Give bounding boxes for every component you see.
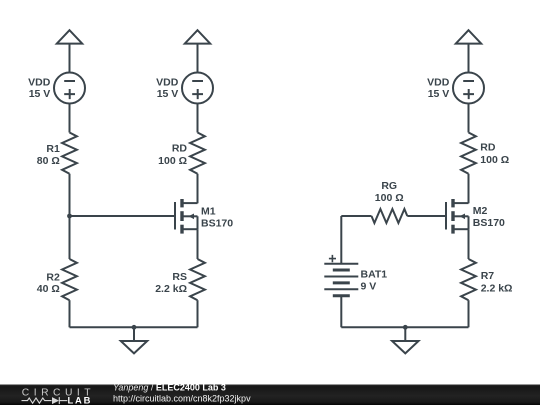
wire (69, 216, 71, 259)
node junction dot (right ground tap) (403, 325, 408, 330)
voltage source V3 circle (453, 73, 484, 104)
voltage source V1 minus sign (64, 80, 75, 82)
voltage source V3 plus sign (463, 89, 474, 99)
svg-text:2.2 kΩ: 2.2 kΩ (481, 282, 513, 294)
wire (197, 174, 199, 204)
resistor R7 (461, 259, 476, 300)
resistor R1 (62, 133, 77, 174)
power flag VDD (right circuit) (456, 30, 481, 43)
wire (341, 215, 371, 217)
node junction dot (67, 214, 72, 219)
wire (bottom rail left) (70, 326, 198, 328)
svg-text:M2: M2 (473, 205, 488, 217)
svg-text:15 V: 15 V (157, 88, 179, 100)
svg-text:VDD: VDD (427, 77, 450, 89)
transistor M1 (175, 199, 198, 234)
wire (407, 215, 446, 217)
svg-text:VDD: VDD (156, 77, 179, 89)
svg-text:RG: RG (381, 180, 397, 192)
battery BAT1 plus sign (329, 255, 336, 262)
wire (340, 296, 342, 328)
svg-text:100 Ω: 100 Ω (158, 155, 187, 167)
svg-text:R7: R7 (481, 270, 495, 282)
svg-text:40 Ω: 40 Ω (37, 283, 60, 295)
svg-text:100 Ω: 100 Ω (375, 192, 404, 204)
wire (468, 44, 470, 73)
svg-text:RS: RS (172, 271, 187, 283)
voltage source V2 circle (182, 73, 213, 104)
svg-text:BS170: BS170 (473, 217, 505, 229)
wire (468, 104, 470, 133)
svg-text:100 Ω: 100 Ω (480, 154, 509, 166)
wire (69, 44, 71, 73)
power flag VDD (branch 1) (57, 30, 82, 43)
voltage source V2 minus sign (192, 80, 203, 82)
wire (69, 174, 71, 216)
wire (gate lead to M1) (70, 215, 176, 217)
voltage source V3 minus sign (463, 80, 474, 82)
wire (197, 104, 199, 133)
battery BAT1 plates (324, 264, 358, 296)
svg-text:80 Ω: 80 Ω (37, 155, 60, 167)
svg-text:R1: R1 (46, 143, 60, 155)
ground (right) (392, 327, 418, 353)
wire (340, 216, 342, 264)
wire (69, 104, 71, 133)
svg-text:2.2 kΩ: 2.2 kΩ (155, 283, 187, 295)
wire (197, 229, 199, 259)
voltage source V1 circle (54, 73, 85, 104)
power flag VDD (branch 2) (185, 30, 210, 43)
wire (197, 44, 199, 73)
logo resistor-diode glyph (22, 397, 68, 404)
wire (69, 300, 71, 327)
resistor RS (190, 259, 205, 300)
transistor M2 (446, 199, 469, 234)
svg-text:LAB: LAB (68, 394, 93, 405)
wire (468, 300, 470, 327)
node junction dot (ground tap) (132, 325, 137, 330)
svg-text:RD: RD (480, 142, 496, 154)
wire (468, 174, 470, 204)
resistor RD (190, 133, 205, 174)
svg-text:VDD: VDD (28, 77, 51, 89)
voltage source V2 plus sign (192, 89, 203, 99)
ground (121, 327, 147, 353)
svg-text:15 V: 15 V (428, 88, 450, 100)
svg-text:BAT1: BAT1 (361, 269, 388, 281)
svg-text:M1: M1 (201, 205, 216, 217)
svg-text:BS170: BS170 (201, 218, 233, 230)
resistor RD (right) (461, 133, 476, 174)
svg-text:R2: R2 (46, 271, 60, 283)
svg-text:9 V: 9 V (361, 281, 377, 293)
wire (197, 300, 199, 327)
resistor R2 (62, 259, 77, 300)
svg-text:http://circuitlab.com/cn8k2fp3: http://circuitlab.com/cn8k2fp32jkpv (113, 393, 251, 403)
wire (bottom rail right) (341, 326, 468, 328)
wire (468, 229, 470, 259)
svg-text:RD: RD (172, 143, 188, 155)
resistor RG (horizontal) (372, 209, 408, 223)
svg-text:Yanpeng / ELEC2400 Lab 3: Yanpeng / ELEC2400 Lab 3 (113, 383, 226, 393)
svg-text:15 V: 15 V (29, 88, 51, 100)
voltage source V1 plus sign (64, 89, 75, 99)
